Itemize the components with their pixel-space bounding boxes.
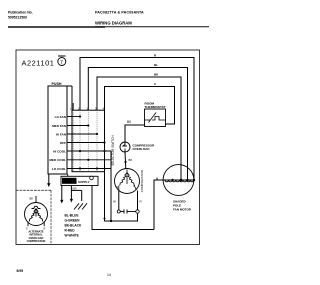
svg-text:R: R — [134, 185, 136, 188]
svg-text:PAC082TTA & PAC09ANTA: PAC082TTA & PAC09ANTA — [95, 11, 144, 15]
revision circle symbol — [58, 56, 66, 66]
alternate compressor caption — [27, 229, 46, 243]
svg-text:BK: BK — [154, 73, 159, 77]
outer diagram border — [16, 50, 200, 245]
svg-text:WIRING DIAGRAM: WIRING DIAGRAM — [95, 21, 132, 26]
alternate compressor pointer wire — [48, 174, 50, 184]
svg-text:BK: BK — [127, 120, 132, 124]
stub switch to power box — [67, 174, 69, 176]
switch column dotted lines — [73, 110, 97, 172]
disconnect terminal left — [117, 210, 120, 213]
svg-text:R: R — [154, 54, 157, 58]
compressor circle — [115, 169, 140, 194]
svg-text:R: R — [140, 200, 143, 204]
wire loop t5: terminal 5 to room thermostat — [105, 87, 175, 125]
svg-text:BL-BLUE: BL-BLUE — [65, 214, 79, 218]
header publication text — [8, 11, 33, 20]
motor common terminal tick — [156, 178, 158, 180]
compressor overload label — [133, 144, 156, 152]
windings — [29, 209, 36, 222]
svg-text:POWER: POWER — [63, 180, 75, 184]
shaded pole fan motor circle — [163, 165, 194, 196]
svg-text:MED FAN: MED FAN — [52, 124, 67, 128]
header rule — [8, 26, 105, 28]
svg-text:LO COOL: LO COOL — [52, 167, 66, 171]
svg-text:PUSH: PUSH — [52, 82, 62, 86]
fan motor caption — [173, 200, 192, 212]
svg-text:BL: BL — [154, 63, 158, 67]
strain relief circle on box — [90, 176, 94, 180]
neutral wire from power box to rail 2 — [92, 186, 154, 230]
compressor R lead down to rail 1 — [137, 191, 139, 222]
switch row contact lines — [67, 117, 111, 169]
compressor overload circle — [120, 142, 130, 152]
disconnect terminal right — [136, 210, 139, 213]
wire loop t2: terminal 2 up, across top, down right side to fan winding right end — [80, 58, 194, 181]
svg-text:Publication No.: Publication No. — [8, 11, 33, 15]
switch L1 column wire (left edge of grid, up to push box top) — [71, 86, 73, 172]
svg-text:R: R — [44, 227, 46, 230]
room thermostat box — [145, 109, 166, 127]
svg-text:G-GREEN: G-GREEN — [65, 219, 81, 223]
svg-text:6/95: 6/95 — [17, 269, 24, 273]
svg-text:7: 7 — [60, 60, 63, 66]
bottom terminal stubs — [27, 222, 29, 227]
svg-text:W-WHITE: W-WHITE — [65, 234, 79, 238]
svg-text:14: 14 — [107, 273, 111, 277]
wire from switch bottom to rail 1 — [105, 172, 139, 222]
room thermostat label — [145, 102, 166, 110]
junction dot rail1/cool feed — [110, 220, 112, 222]
wire loop t3: terminal 3 to fan motor tap — [88, 68, 187, 181]
svg-text:A221101: A221101 — [22, 59, 55, 68]
junction dot — [124, 161, 126, 163]
svg-text:FAN MOTOR: FAN MOTOR — [173, 208, 192, 212]
GR ground lead with arrow — [71, 186, 81, 202]
wire loop t4: terminal 4 to fan motor tap — [97, 77, 181, 180]
svg-text:W: W — [113, 200, 116, 204]
svg-text:OFF: OFF — [60, 141, 66, 145]
fan motor common lead to rail 2 — [154, 180, 163, 230]
compressor windings — [119, 170, 137, 191]
power lead with arrow — [61, 186, 63, 201]
thermostat switch symbol — [145, 113, 166, 123]
svg-text:5995212569: 5995212569 — [8, 16, 27, 20]
svg-text:OVERLOAD: OVERLOAD — [133, 147, 151, 151]
alternate internal overload compressor circle — [25, 203, 48, 227]
alternate compressor dashed box — [16, 190, 51, 244]
svg-text:BK-BLACK: BK-BLACK — [65, 224, 83, 228]
svg-text:SUPPLY: SUPPLY — [78, 180, 90, 184]
fan motor winding — [163, 180, 194, 182]
BK wire thermostat to overload — [125, 125, 145, 142]
color legend — [65, 214, 83, 238]
svg-text:S: S — [117, 186, 119, 189]
selector switch grid box — [72, 110, 105, 172]
svg-text:BK: BK — [30, 197, 34, 201]
junction dot rail1 left — [104, 218, 106, 220]
quick disconnect symbol — [120, 209, 136, 213]
fan motor winding junction dots — [171, 179, 195, 181]
cool feed wire down right of switch to bottom rail — [110, 151, 112, 221]
svg-text:BK: BK — [129, 158, 133, 162]
svg-text:LO FAN: LO FAN — [55, 115, 67, 119]
switch terminal stubs above box — [72, 103, 74, 110]
svg-text:GR: GR — [72, 187, 76, 191]
svg-text:COMPRESSOR: COMPRESSOR — [140, 169, 144, 192]
svg-text:HI FAN: HI FAN — [56, 132, 67, 136]
svg-text:COMPRESSOR: COMPRESSOR — [27, 239, 46, 243]
switch row labels — [49, 115, 66, 171]
internal overload element — [32, 206, 41, 208]
chassis ground symbol — [74, 203, 87, 209]
svg-text:R-RED: R-RED — [65, 229, 76, 233]
compressor W lead to disconnect — [118, 191, 120, 210]
selector switch push box — [48, 86, 72, 174]
alternate compressor lead — [35, 196, 37, 203]
wire overload to compressor — [124, 152, 127, 169]
power supply label box — [61, 176, 98, 185]
svg-text:HI COOL: HI COOL — [53, 149, 66, 153]
svg-text:MED COOL: MED COOL — [49, 158, 66, 162]
switch contact dots — [79, 115, 106, 169]
svg-text:C: C — [154, 82, 157, 86]
switch terminal labels — [70, 107, 105, 111]
